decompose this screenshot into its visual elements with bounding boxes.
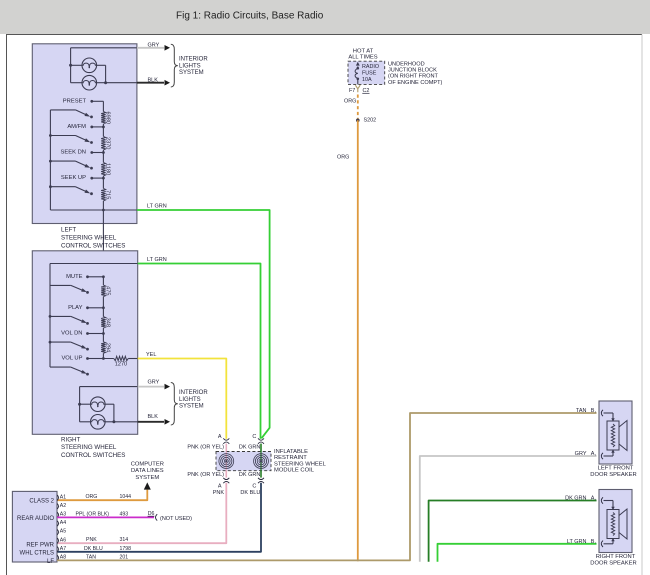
- svg-text:SYSTEM: SYSTEM: [179, 404, 204, 410]
- svg-text:A: A: [218, 434, 222, 440]
- svg-text:A1: A1: [60, 494, 66, 500]
- svg-text:YEL: YEL: [146, 352, 156, 358]
- svg-text:A,: A,: [591, 496, 597, 502]
- svg-text:COMPUTER: COMPUTER: [131, 461, 164, 467]
- svg-text:RIGHT: RIGHT: [61, 436, 80, 443]
- svg-text:1180: 1180: [104, 163, 110, 175]
- svg-text:475: 475: [104, 286, 110, 295]
- svg-text:RIGHT FRONT: RIGHT FRONT: [596, 554, 636, 560]
- svg-text:OF ENGINE COMPT): OF ENGINE COMPT): [388, 80, 443, 86]
- svg-text:BLK: BLK: [148, 414, 159, 420]
- svg-text:DOOR SPEAKER: DOOR SPEAKER: [590, 472, 636, 478]
- svg-text:CLASS 2: CLASS 2: [29, 498, 54, 504]
- svg-text:GRY: GRY: [148, 43, 160, 49]
- svg-text:PNK: PNK: [86, 537, 97, 543]
- svg-text:TAN: TAN: [576, 408, 587, 414]
- svg-text:294: 294: [104, 343, 110, 352]
- svg-text:1270: 1270: [115, 362, 127, 368]
- svg-text:Fig 1: Radio Circuits, Base Ra: Fig 1: Radio Circuits, Base Radio: [176, 10, 324, 21]
- svg-text:LT GRN: LT GRN: [147, 257, 167, 263]
- svg-text:LIGHTS: LIGHTS: [179, 397, 201, 403]
- svg-text:A7: A7: [60, 546, 66, 552]
- svg-text:JUNCTION BLOCK: JUNCTION BLOCK: [388, 68, 437, 74]
- svg-text:B,: B,: [591, 539, 597, 545]
- svg-text:BLK: BLK: [148, 77, 159, 83]
- svg-text:RADIO: RADIO: [362, 64, 379, 70]
- svg-text:SEEK UP: SEEK UP: [61, 175, 86, 181]
- svg-text:10A: 10A: [362, 77, 372, 83]
- svg-text:GRY: GRY: [575, 451, 587, 457]
- svg-text:SEEK DN: SEEK DN: [61, 150, 86, 156]
- svg-text:715: 715: [104, 190, 110, 199]
- svg-text:LIGHTS: LIGHTS: [179, 63, 201, 69]
- svg-text:PPL (OR BLK): PPL (OR BLK): [76, 511, 110, 517]
- svg-text:ORG: ORG: [344, 99, 356, 105]
- svg-text:DK GRN: DK GRN: [239, 445, 260, 451]
- svg-text:A4: A4: [60, 520, 66, 526]
- svg-text:MUTE: MUTE: [66, 274, 83, 280]
- svg-text:A5: A5: [60, 529, 66, 535]
- svg-text:ALL TIMES: ALL TIMES: [348, 54, 377, 60]
- svg-text:2370: 2370: [104, 137, 110, 149]
- svg-text:AM/FM: AM/FM: [67, 124, 86, 130]
- svg-text:HOT AT: HOT AT: [353, 48, 374, 54]
- svg-text:C: C: [252, 484, 256, 490]
- svg-text:A: A: [218, 484, 222, 490]
- svg-text:CONTROL SWITCHES: CONTROL SWITCHES: [61, 452, 125, 459]
- svg-text:LT GRN: LT GRN: [147, 203, 167, 209]
- svg-text:493: 493: [120, 511, 129, 517]
- svg-text:DK GRN: DK GRN: [239, 472, 260, 478]
- svg-text:REF PWR: REF PWR: [26, 543, 54, 549]
- svg-text:1798: 1798: [120, 546, 132, 552]
- svg-text:REAR AUDIO: REAR AUDIO: [17, 516, 54, 522]
- svg-text:LEFT: LEFT: [61, 227, 76, 234]
- svg-text:A,: A,: [591, 451, 597, 457]
- svg-text:DOOR SPEAKER: DOOR SPEAKER: [590, 561, 636, 567]
- svg-text:WHL CTRLS: WHL CTRLS: [20, 551, 54, 557]
- svg-text:PNK: PNK: [213, 490, 225, 496]
- svg-text:MODULE COIL: MODULE COIL: [274, 468, 315, 474]
- svg-text:CONTROL SWITCHES: CONTROL SWITCHES: [61, 242, 125, 249]
- svg-text:S202: S202: [364, 118, 377, 124]
- svg-text:SYSTEM: SYSTEM: [179, 70, 204, 76]
- svg-text:RESTRAINT: RESTRAINT: [274, 455, 307, 461]
- svg-text:VOL DN: VOL DN: [61, 331, 82, 337]
- svg-text:ORG: ORG: [337, 155, 349, 161]
- svg-text:DK GRN: DK GRN: [565, 496, 586, 502]
- svg-text:6980: 6980: [104, 112, 110, 124]
- svg-text:PRESET: PRESET: [63, 98, 87, 104]
- svg-text:ORG: ORG: [86, 494, 98, 500]
- svg-text:SYSTEM: SYSTEM: [135, 475, 159, 481]
- svg-text:PLAY: PLAY: [68, 305, 83, 311]
- svg-text:FUSE: FUSE: [362, 70, 377, 76]
- svg-text:348: 348: [104, 318, 110, 327]
- svg-text:(ON RIGHT FRONT: (ON RIGHT FRONT: [388, 74, 439, 80]
- svg-text:1044: 1044: [120, 494, 132, 500]
- svg-text:A2: A2: [60, 503, 66, 509]
- svg-text:F7: F7: [349, 88, 355, 94]
- svg-text:STEERING WHEEL: STEERING WHEEL: [61, 444, 117, 451]
- svg-text:314: 314: [120, 537, 129, 543]
- svg-text:A6: A6: [60, 537, 66, 543]
- svg-text:INTERIOR: INTERIOR: [179, 57, 208, 63]
- svg-text:C: C: [252, 434, 256, 440]
- svg-text:B,: B,: [591, 408, 597, 414]
- svg-text:VOL UP: VOL UP: [61, 356, 82, 362]
- svg-text:PNK (OR YEL): PNK (OR YEL): [187, 445, 224, 451]
- svg-text:(NOT USED): (NOT USED): [160, 516, 192, 522]
- svg-text:DK BLU: DK BLU: [240, 490, 260, 496]
- svg-text:GRY: GRY: [148, 380, 160, 386]
- svg-text:UNDERHOOD: UNDERHOOD: [388, 61, 425, 67]
- svg-text:INTERIOR: INTERIOR: [179, 390, 208, 396]
- svg-text:STEERING WHEEL: STEERING WHEEL: [61, 235, 117, 242]
- svg-text:DATA LINES: DATA LINES: [131, 468, 164, 474]
- svg-text:LF: LF: [47, 559, 54, 565]
- svg-text:DK BLU: DK BLU: [84, 546, 103, 552]
- svg-text:STEERING WHEEL: STEERING WHEEL: [274, 461, 327, 467]
- svg-text:PNK (OR YEL): PNK (OR YEL): [187, 472, 224, 478]
- svg-text:INFLATABLE: INFLATABLE: [274, 449, 308, 455]
- svg-text:LT GRN: LT GRN: [567, 539, 587, 545]
- svg-text:LEFT FRONT: LEFT FRONT: [598, 466, 634, 472]
